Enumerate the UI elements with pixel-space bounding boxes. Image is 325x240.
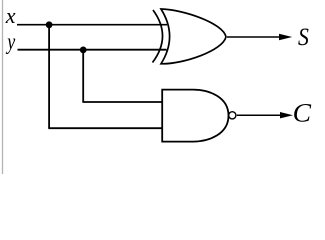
xor gate U1 body	[161, 9, 226, 64]
arrowhead C	[280, 112, 293, 118]
wire XOR output to S	[227, 36, 281, 38]
nand gate U2 bubble	[229, 112, 236, 119]
svg-text:y: y	[5, 30, 15, 55]
wire vertical drop from x junction	[48, 25, 50, 129]
svg-text:x: x	[5, 3, 16, 28]
wire y to XOR input	[18, 49, 167, 51]
wire vertical drop from y junction	[82, 50, 84, 102]
wire y drop to NAND top input	[82, 101, 162, 103]
page edge line	[2, 0, 4, 174]
junction dot on x wire	[46, 21, 53, 28]
nand gate U2 body	[162, 90, 228, 142]
svg-text:S: S	[298, 24, 309, 52]
xor gate U1 input arc	[153, 10, 163, 63]
junction dot on y wire	[80, 47, 87, 54]
wire NAND output to C	[237, 114, 282, 116]
svg-text:C: C	[293, 98, 313, 127]
arrowhead S	[279, 34, 292, 40]
wire x to XOR input	[17, 24, 167, 26]
wire x drop to NAND bottom input	[48, 127, 162, 129]
